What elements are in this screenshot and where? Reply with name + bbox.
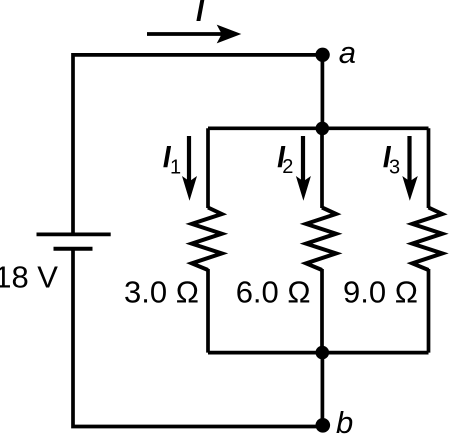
- svg-text:b: b: [336, 405, 353, 434]
- current arrow I1 head: [182, 176, 197, 201]
- resistor R3 9.0 ohm zigzag: [412, 208, 442, 271]
- wire: branch 3 lower lead: [427, 269, 431, 353]
- svg-text:9.0 Ω: 9.0 Ω: [343, 275, 418, 310]
- wire: left side below battery and bottom to node b: [73, 249, 323, 427]
- node b: [316, 418, 331, 433]
- current arrow I head: [217, 25, 242, 44]
- resistor R2 6.0 ohm zigzag: [306, 208, 336, 271]
- wire: branch 3 upper lead: [427, 128, 431, 208]
- current arrow I3 shaft: [407, 136, 411, 182]
- svg-text:2: 2: [282, 156, 293, 178]
- battery 18 V negative plate (short): [54, 247, 93, 251]
- svg-text:a: a: [339, 35, 356, 70]
- node a: [315, 48, 329, 62]
- battery 18 V positive plate (long): [37, 232, 111, 236]
- wire: branch 2 upper lead: [320, 128, 324, 208]
- current label I: [196, 0, 204, 21]
- wire: top parallel bus: [208, 126, 429, 130]
- current arrow I3 head: [402, 176, 418, 201]
- wire: bottom parallel bus: [208, 351, 429, 355]
- wire: left side and top from battery to node a: [73, 55, 322, 235]
- resistor R1 3.0 ohm zigzag: [192, 208, 222, 271]
- current label I3: [383, 146, 391, 167]
- wire: node a down to top parallel bus: [321, 55, 325, 128]
- wire: branch 1 lower lead: [206, 269, 210, 353]
- svg-text:3.0 Ω: 3.0 Ω: [124, 275, 199, 310]
- svg-text:6.0 Ω: 6.0 Ω: [236, 275, 311, 310]
- svg-text:1: 1: [170, 156, 181, 178]
- current label I1: [163, 146, 171, 167]
- current arrow I shaft: [147, 32, 222, 36]
- current label I2: [278, 146, 286, 167]
- junction dot at top bus: [316, 122, 330, 136]
- wire: branch 2 lower lead: [320, 269, 324, 353]
- svg-text:3: 3: [389, 157, 400, 179]
- wire: branch 1 upper lead: [206, 128, 210, 208]
- current arrow I2 head: [296, 176, 311, 201]
- junction dot at bottom bus: [316, 346, 330, 360]
- current arrow I1 shaft: [187, 136, 191, 182]
- svg-text:18 V: 18 V: [0, 259, 58, 294]
- wire: node b up to bottom parallel bus: [321, 353, 325, 426]
- current arrow I2 shaft: [301, 136, 305, 182]
